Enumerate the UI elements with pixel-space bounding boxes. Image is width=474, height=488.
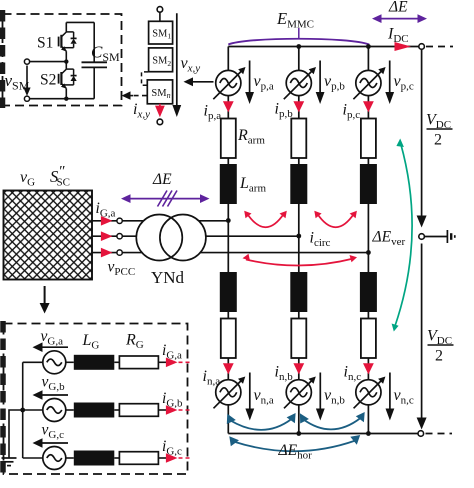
source v_G,b xyxy=(43,399,66,422)
svg-text:vPCC: vPCC xyxy=(108,259,136,279)
svg-text:ip,a: ip,a xyxy=(204,103,222,123)
inductor L_arm phase a (upper, filled) xyxy=(220,164,237,204)
wire L to R row c xyxy=(114,457,119,459)
i_p,c red arrow xyxy=(363,101,374,112)
resistor R_arm phase a (lower) xyxy=(221,319,236,359)
terminal DC+ xyxy=(419,44,425,50)
source U_n,c (controllable) xyxy=(354,377,386,409)
svg-text:vn,a: vn,a xyxy=(254,387,274,407)
wire source to L_G row b xyxy=(66,409,74,411)
submodule SM2 xyxy=(149,48,173,72)
wire L to R lower phase c xyxy=(367,312,369,319)
source U_n,a (controllable) xyxy=(214,377,246,409)
arrow from phase-a source toward stack xyxy=(187,81,214,83)
wire L to R lower phase b xyxy=(298,312,300,319)
transistor S1 (IGBT with diode) xyxy=(59,22,77,61)
dE double arrow (transformer) xyxy=(126,198,205,200)
svg-text:VDC: VDC xyxy=(426,112,451,132)
DC link upper line xyxy=(421,49,423,216)
dashed continuation marker xyxy=(142,72,149,85)
wire upper terminal to midpoint node xyxy=(30,61,67,63)
v_G,c arrow (left) xyxy=(39,442,68,444)
source v_G,a xyxy=(43,351,66,374)
inductor L_arm phase c (upper, filled) xyxy=(360,164,377,204)
i_G,a red dashed continuation xyxy=(179,361,191,363)
svg-text:RG: RG xyxy=(125,332,144,352)
arrow from SM stack into detail box xyxy=(131,95,147,97)
svg-text:in,b: in,b xyxy=(275,364,294,384)
node phase c on bottom rail xyxy=(366,431,371,436)
v_G,a arrow (left) xyxy=(39,346,68,348)
svg-text:iG,a: iG,a xyxy=(96,200,116,220)
wire source p,b to R_arm xyxy=(298,96,300,119)
svg-text:vG,a: vG,a xyxy=(41,328,64,348)
i_G,a red arrow xyxy=(101,216,113,226)
I_DC red arrow on rail xyxy=(395,42,412,51)
svg-text:S″SC: S″SC xyxy=(50,164,70,189)
dE_hor arc b-c xyxy=(304,418,361,429)
submodule detail box (dashed border) xyxy=(3,14,122,106)
wire R to output row b xyxy=(158,409,167,411)
resistor R_G row c xyxy=(119,452,158,465)
submodule SM1 xyxy=(149,21,173,44)
svg-text:CSM: CSM xyxy=(91,43,120,65)
wire lower R to source n,a xyxy=(227,358,229,380)
node neutral xyxy=(20,408,25,413)
svg-text:vn,b: vn,b xyxy=(324,387,345,407)
wire bus to source G,b xyxy=(23,409,43,411)
svg-text:ΔEhor: ΔEhor xyxy=(278,442,313,462)
wire R to L phase a xyxy=(227,158,229,164)
dE horizontal double arrow (top right) xyxy=(377,18,422,20)
DC midpoint terminal xyxy=(419,234,425,240)
dashed continuation DC+ xyxy=(426,46,453,48)
v_n,a arrow xyxy=(249,373,251,410)
node phase-c on top rail xyxy=(366,44,371,49)
v_p,b arrow xyxy=(319,61,321,93)
svg-text:iG,c: iG,c xyxy=(162,438,182,458)
grid detail box thick left edge xyxy=(0,321,6,477)
svg-text:vn,c: vn,c xyxy=(394,387,414,407)
source v_G,c xyxy=(43,447,66,470)
resistor R_G row a xyxy=(119,356,158,369)
inductor L_G row a (filled) xyxy=(74,355,115,370)
svg-text:ΔE: ΔE xyxy=(152,171,172,188)
wire bus to source G,c xyxy=(23,457,43,459)
wire rail to source p,a xyxy=(227,47,229,71)
top DC rail xyxy=(228,46,418,48)
resistor R_arm phase b (lower) xyxy=(291,319,306,359)
node emitter S2 / bottom xyxy=(64,97,68,101)
wire L to R row b xyxy=(114,409,119,411)
wire phase a upper arm to lower arm xyxy=(227,204,229,272)
wire R to output row a xyxy=(158,361,167,363)
i_n,b red arrow xyxy=(293,363,304,374)
svg-text:ΔE: ΔE xyxy=(388,0,408,16)
terminal top of SM stack xyxy=(157,7,163,13)
grid detail box (dashed border) xyxy=(4,324,188,475)
i_G,b red arrow xyxy=(166,405,178,415)
svg-text:Rarm: Rarm xyxy=(237,127,265,147)
node phase b AC xyxy=(296,234,301,239)
wire source n,a to bottom rail xyxy=(227,405,229,434)
wire PCC to phase b node xyxy=(122,235,298,237)
terminal PCC phase a xyxy=(117,218,122,223)
svg-text:VDC: VDC xyxy=(427,328,452,348)
terminal PCC phase c xyxy=(117,250,122,255)
terminal lower-left of SM cell xyxy=(24,96,29,101)
wire phase c upper arm to lower arm xyxy=(367,204,369,272)
grid short-circuit box (crosshatched) xyxy=(4,191,93,280)
terminal bottom of SM stack xyxy=(157,119,163,125)
wire lower R to source n,b xyxy=(298,358,300,380)
transistor S2 (IGBT with diode) xyxy=(59,62,77,99)
terminal DC- xyxy=(418,431,424,437)
source U_p,c (controllable) xyxy=(353,67,385,99)
V_DC/2 lower arrow head xyxy=(417,418,427,430)
i_G,c red arrow xyxy=(101,248,113,258)
svg-text:in,c: in,c xyxy=(344,364,362,384)
DC link lower line xyxy=(421,244,423,426)
node phase-b on top rail xyxy=(296,44,301,49)
resistor R_arm phase a (upper) xyxy=(221,119,236,159)
wire source p,c to R_arm xyxy=(367,96,369,119)
i_G,c red arrow xyxy=(166,453,178,463)
resistor R_arm phase b (upper) xyxy=(291,119,306,159)
node midpoint of half-bridge xyxy=(64,59,68,63)
ground (grid neutral) xyxy=(2,457,17,459)
wire stack top xyxy=(159,12,161,21)
source U_p,b (controllable) xyxy=(284,67,316,99)
inductor L_G row b (filled) xyxy=(74,403,115,418)
svg-text:iG,a: iG,a xyxy=(162,342,182,362)
wire source p,a to R_arm xyxy=(227,96,229,119)
i_x,y red arrow below stack xyxy=(159,104,161,108)
wire source n,c to bottom rail xyxy=(367,405,369,434)
i_G,c red dashed continuation xyxy=(179,457,191,459)
dashed continuation DC- xyxy=(426,433,453,435)
wire L to R row a xyxy=(114,361,119,363)
v_SM arrow (down) xyxy=(26,66,28,90)
svg-text:iG,b: iG,b xyxy=(162,390,183,410)
i_G,b red arrow xyxy=(101,231,113,241)
svg-text:S1: S1 xyxy=(37,35,53,52)
ground (DC midpoint) xyxy=(446,230,448,243)
svg-text:Larm: Larm xyxy=(239,175,266,195)
svg-text:IDC: IDC xyxy=(387,26,409,46)
svg-text:vG: vG xyxy=(20,169,35,189)
wire PCC to phase a node xyxy=(122,220,228,222)
svg-text:EMMC: EMMC xyxy=(276,9,314,31)
wire neutral to ground xyxy=(9,410,23,458)
svg-text:ip,b: ip,b xyxy=(275,101,294,121)
i_G,b red dashed continuation xyxy=(179,409,191,411)
wire R to L phase c xyxy=(367,158,369,164)
i_circ arc between phase a and b xyxy=(247,214,284,228)
svg-text:S2: S2 xyxy=(40,72,56,89)
dE_hor arc a-b xyxy=(231,419,292,430)
i_circ wide arc below xyxy=(246,259,354,266)
terminal upper-left of SM cell xyxy=(24,59,29,64)
wire phase b upper arm to lower arm xyxy=(298,204,300,272)
dE arrow hatch marks xyxy=(158,191,178,207)
v_p,a arrow xyxy=(249,61,251,93)
wire R to output row c xyxy=(158,457,167,459)
wire rail to source p,b xyxy=(298,47,300,71)
transformer winding 1 xyxy=(136,215,182,261)
resistor R_G row b xyxy=(119,404,158,417)
wire L to R lower phase a xyxy=(227,312,229,319)
bottom DC rail xyxy=(228,433,418,435)
neutral bus xyxy=(22,362,24,458)
i_n,a red arrow xyxy=(223,363,234,374)
inductor L_arm phase b (lower, filled) xyxy=(290,272,307,312)
node phase a AC xyxy=(226,218,231,223)
svg-text:vx,y: vx,y xyxy=(181,55,201,75)
node phase b on bottom rail xyxy=(296,431,301,436)
inductor L_G row c (filled) xyxy=(74,451,115,466)
dE_hor wide arc a-c xyxy=(234,441,356,452)
inductor L_arm phase a (lower, filled) xyxy=(220,272,237,312)
wire grid to PCC phase c xyxy=(92,252,117,254)
source U_n,b (controllable) xyxy=(284,377,316,409)
v_n,c arrow xyxy=(389,373,391,410)
dE_ver vertical double arc xyxy=(395,144,412,326)
wire PCC to phase c node xyxy=(122,252,368,254)
node phase c AC xyxy=(366,250,371,255)
resistor R_arm phase c (upper) xyxy=(361,119,376,159)
svg-text:vp,a: vp,a xyxy=(254,73,274,93)
v_n,b arrow xyxy=(319,373,321,410)
wire grid to PCC phase a xyxy=(92,220,117,222)
svg-text:vp,c: vp,c xyxy=(394,73,414,93)
brace over MMC phase legs xyxy=(228,39,369,45)
svg-text:icirc: icirc xyxy=(310,230,331,250)
wire lower R to source n,c xyxy=(367,358,369,380)
submodule detail box thick left edge xyxy=(0,10,5,108)
svg-text:LG: LG xyxy=(82,332,100,352)
wire midpoint to ground xyxy=(424,236,447,238)
i_G,a red arrow xyxy=(166,358,178,368)
submodule SMn xyxy=(147,80,172,104)
svg-text:vp,b: vp,b xyxy=(324,73,345,93)
v_p,c arrow xyxy=(389,61,391,93)
wire source to L_G row c xyxy=(66,457,74,459)
wire bus to source G,a xyxy=(23,361,43,363)
svg-text:ip,c: ip,c xyxy=(343,102,361,122)
wire R to L phase b xyxy=(298,158,300,164)
v_G,b arrow (left) xyxy=(39,394,68,396)
wire lower terminal to bottom rail of cell xyxy=(30,98,95,100)
terminal PCC phase b xyxy=(117,234,122,239)
inductor L_arm phase b (upper, filled) xyxy=(290,164,307,204)
source U_p,a (controllable) xyxy=(213,67,245,99)
svg-text:vG,b: vG,b xyxy=(42,374,66,394)
wire top rail of cell xyxy=(66,21,94,23)
arrow from grid box down to detail box xyxy=(44,286,46,305)
svg-text:2: 2 xyxy=(434,132,442,149)
svg-text:2: 2 xyxy=(435,348,443,365)
v_x,y arrow (down, right of stack) xyxy=(176,13,178,105)
wire source to L_G row a xyxy=(66,361,74,363)
svg-text:ΔEver: ΔEver xyxy=(372,229,406,249)
i_p,b red arrow xyxy=(293,101,304,112)
resistor R_arm phase c (lower) xyxy=(361,319,376,359)
wire source n,b to bottom rail xyxy=(298,405,300,434)
capacitor C_SM xyxy=(93,22,95,62)
i_n,c red arrow xyxy=(363,363,374,374)
wire rail to source p,c xyxy=(367,47,369,71)
i_p,a red arrow xyxy=(223,101,234,112)
inductor L_arm phase c (lower, filled) xyxy=(360,272,377,312)
V_DC/2 upper arrow head xyxy=(417,216,427,228)
i_circ arc between phase b and c xyxy=(317,214,354,228)
wire grid to PCC phase b xyxy=(92,235,117,237)
svg-text:YNd: YNd xyxy=(151,268,185,287)
transformer winding 2 xyxy=(160,215,206,261)
svg-text:vG,c: vG,c xyxy=(42,422,65,442)
